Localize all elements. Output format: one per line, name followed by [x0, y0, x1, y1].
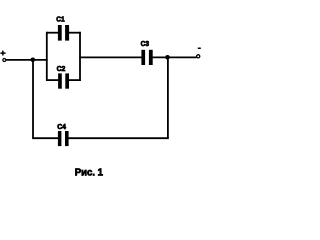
svg-text:C1: C1	[56, 15, 64, 24]
svg-text:C4: C4	[57, 122, 66, 131]
svg-text:C2: C2	[57, 64, 66, 73]
svg-text:Рис. 1: Рис. 1	[75, 168, 104, 179]
svg-text:C3: C3	[141, 39, 149, 48]
